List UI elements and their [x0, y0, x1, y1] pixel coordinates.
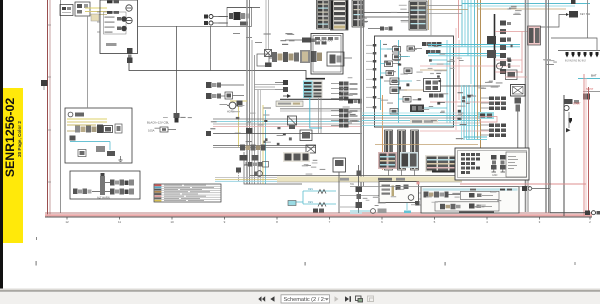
arrow symbol	[283, 94, 291, 98]
schematic frame left border	[48, 0, 51, 217]
battery column BC2	[398, 130, 406, 170]
harness box H1	[70, 171, 140, 199]
svg-text:12: 12	[65, 220, 69, 224]
svg-text:20 Page, Color 2: 20 Page, Color 2	[17, 121, 22, 157]
svg-text:Schematic (2 / 2:: Schematic (2 / 2:	[284, 297, 326, 303]
relay sockets right RS2	[331, 109, 358, 128]
double border box M1	[311, 34, 343, 75]
sub-box text	[508, 156, 518, 169]
toolbar prev button	[270, 296, 274, 302]
CB4 risers	[429, 0, 432, 36]
wire yellow feed	[85, 8, 107, 15]
UB1 ground chains	[491, 155, 506, 177]
connector chain C2	[368, 27, 393, 31]
pink outline box PK2	[480, 117, 497, 123]
wire relay to bus	[219, 17, 228, 24]
conn pins right top	[422, 42, 442, 54]
logic gate B	[393, 54, 409, 60]
wire main feed	[129, 63, 306, 79]
svg-text:START: START	[573, 103, 581, 106]
tan links ECM	[404, 70, 447, 90]
wire bundle mid horizontal	[213, 119, 362, 127]
cyan verticals in ECM	[381, 40, 451, 123]
alternator box A1	[65, 108, 132, 163]
logic gate C	[385, 61, 401, 67]
dense cluster DT2	[400, 152, 418, 168]
connector P1 vertical chain	[127, 48, 133, 63]
valve pair V1	[313, 209, 324, 213]
valve chain C4	[248, 162, 269, 168]
ring terminal pair T2	[204, 21, 228, 25]
wire CB3 to CB4	[364, 13, 409, 18]
gray ECM block	[313, 81, 323, 99]
bottom toolbar	[0, 289, 600, 304]
key switch S2	[566, 11, 591, 18]
gate D	[404, 68, 412, 74]
wire vertical drop to alternator	[176, 26, 178, 113]
stub labels upper mid	[233, 33, 262, 43]
relay module K2	[300, 130, 312, 141]
horn H2	[227, 102, 236, 113]
svg-text:KEY SW: KEY SW	[580, 12, 591, 16]
sender module SM1	[288, 201, 296, 206]
connector block CB4	[409, 1, 427, 30]
UB1 pin stacks	[461, 153, 480, 174]
starter drop wire	[563, 95, 565, 216]
wire bus38	[551, 38, 597, 50]
svg-text:RES: RES	[308, 188, 313, 191]
wire end comp	[206, 131, 211, 136]
filter chain FC2	[515, 98, 522, 149]
inline fuse box F2	[257, 54, 269, 66]
wire gauge to relay	[138, 25, 228, 27]
battery column tails	[389, 170, 415, 176]
cyan stub wires bottom	[350, 211, 370, 213]
toolbar next button disabled	[335, 296, 339, 302]
upper right box UB1	[455, 148, 529, 180]
wire lower pair	[213, 146, 316, 148]
power bus vertical PB1	[494, 14, 496, 80]
lamp module LM1	[288, 116, 297, 129]
logic gate A	[387, 47, 401, 53]
connector block CB3	[352, 0, 364, 27]
svg-text:BLACK+12V CBL: BLACK+12V CBL	[147, 121, 169, 125]
riser pair to chain	[266, 0, 269, 49]
sensor stack SS1	[350, 165, 362, 213]
gray line right top	[587, 0, 589, 38]
switch box SB1	[333, 158, 346, 213]
upper sub-box divider	[506, 152, 527, 177]
receptacle box J2	[327, 52, 352, 66]
cyan band mid right	[462, 85, 473, 140]
svg-text:GND: GND	[492, 174, 498, 177]
dense cluster DT3	[425, 155, 475, 172]
wire panel top	[350, 186, 530, 188]
gate F	[407, 46, 422, 51]
trim panel chain upper	[424, 192, 461, 198]
dense cluster DT4	[479, 152, 505, 172]
pink frame inner	[460, 74, 586, 216]
conn pins right mid	[429, 94, 444, 98]
transformer X1	[265, 50, 272, 68]
yellow label band	[3, 88, 23, 243]
cyan riser group	[462, 0, 481, 150]
relay box K1	[227, 7, 252, 26]
dense cluster DT1	[378, 152, 397, 169]
connector chain C1	[269, 50, 322, 63]
svg-text:INJ INJ INJ INJ INJ: INJ INJ INJ INJ INJ	[565, 60, 586, 63]
cyan drop wire	[310, 98, 322, 128]
cyan trunk horizontals	[428, 45, 520, 56]
diode module D1	[225, 92, 244, 99]
junction block JB1	[246, 128, 253, 134]
extra panel wires	[340, 193, 436, 210]
cyan ECM block	[303, 78, 325, 98]
breaker box B1	[60, 5, 73, 16]
label box L1	[276, 101, 303, 107]
wire right feeder	[440, 85, 500, 87]
alternator feed line	[87, 16, 89, 108]
relay K4	[390, 87, 407, 94]
frame ticks	[48, 25, 52, 182]
connector pins CP3	[275, 80, 288, 92]
pink riser	[458, 0, 460, 38]
svg-text:11: 11	[118, 220, 121, 224]
CB4 tails right	[427, 6, 468, 14]
gate H	[390, 109, 398, 115]
motor box M3	[511, 85, 526, 97]
connector row chain C3	[240, 145, 266, 151]
top edge comp	[571, 0, 576, 4]
pink service wires	[420, 28, 520, 131]
svg-text:10: 10	[170, 220, 174, 224]
svg-text:105A: 105A	[148, 129, 155, 133]
pink jumpers	[495, 32, 540, 74]
bottom frame	[45, 213, 592, 217]
trim inner box A	[461, 191, 500, 199]
cyan relay block CR1	[478, 112, 494, 119]
cyan links ECM	[381, 49, 451, 108]
connector stub CS1	[522, 148, 550, 191]
battery column BC1	[385, 130, 393, 170]
wire dark mid	[213, 133, 362, 135]
resistor R3	[303, 201, 336, 207]
connector D2	[237, 101, 243, 148]
pin rows PR2	[481, 124, 506, 138]
cyan harness bundle	[362, 113, 480, 126]
gray bus vertical x362	[361, 0, 364, 186]
gauge cluster right	[497, 63, 518, 80]
ECM edge pins	[366, 44, 376, 109]
cyan feeder top right	[462, 4, 590, 10]
ECM enclosure U2	[375, 36, 454, 127]
pump motor M2	[254, 171, 262, 177]
connector row C5	[348, 100, 362, 104]
schematic inner border line	[60, 0, 62, 213]
diode row DR1	[558, 51, 600, 63]
svg-text:ALT HARN: ALT HARN	[97, 196, 110, 200]
dense block top DT5	[283, 152, 310, 162]
relay K3	[384, 78, 399, 85]
io block IO1	[424, 79, 441, 92]
legend table	[154, 184, 221, 202]
wire relay drop	[210, 26, 212, 70]
bus stubs left cluster	[254, 85, 283, 90]
gate G	[399, 97, 412, 103]
bus bundle secondary	[258, 90, 266, 184]
frame terminal stub	[41, 80, 48, 90]
cyan elbow to rows	[464, 137, 487, 140]
red frame outer	[588, 87, 590, 213]
breaker box B2	[75, 2, 90, 16]
relay sockets right RS1	[331, 82, 358, 101]
svg-text:RES: RES	[308, 201, 313, 204]
gray bus x526	[526, 0, 529, 212]
orange vertical wire	[382, 95, 384, 170]
connector pair CP1	[206, 82, 244, 88]
toolbar page dropdown	[281, 295, 330, 303]
dense module DM1	[410, 105, 424, 113]
svg-text:BAT P: BAT P	[586, 87, 594, 91]
bundle wires into band	[215, 178, 277, 182]
wire key switch	[540, 15, 566, 28]
connector P2	[147, 113, 180, 125]
alternator internals	[67, 112, 123, 161]
connector block CB1	[317, 0, 330, 29]
connector block CB2	[331, 0, 349, 30]
resistor网 R2	[303, 188, 336, 194]
pink connector block PK1	[528, 26, 541, 45]
feeder tap block FT1	[487, 36, 496, 58]
BAT cyan wire	[578, 74, 600, 100]
trim inner box B	[435, 202, 499, 211]
wire bottom right	[550, 189, 600, 216]
pale harness band	[250, 176, 462, 182]
cab panel box CP4	[379, 182, 419, 203]
harness internals	[73, 173, 134, 200]
gray drops below block	[319, 98, 322, 133]
ground module G1	[306, 145, 316, 153]
grid tick row	[65, 217, 591, 224]
extra pink stubs right	[496, 60, 527, 77]
connector pair CP2	[206, 93, 225, 99]
fuse F1 105A	[148, 127, 176, 133]
toolbar clipboard icon disabled	[368, 296, 374, 302]
toolbar snapshot icon	[356, 296, 363, 302]
fuse column FC1	[500, 21, 511, 75]
pin rows PR1	[481, 97, 506, 111]
left stub comps	[415, 201, 420, 206]
trim panel box TP1	[421, 187, 519, 214]
sensor S1	[285, 38, 333, 43]
pink tap	[417, 182, 420, 185]
page specks	[36, 237, 576, 266]
solenoid pair SL1	[240, 155, 259, 165]
gate E	[381, 71, 394, 76]
wire label texture	[155, 5, 557, 208]
tan harness lower	[375, 144, 478, 146]
wire trunk pair	[280, 99, 362, 111]
starter group ST1	[564, 95, 582, 212]
battery column BC3	[411, 130, 419, 170]
gray bus vertical main	[247, 0, 255, 184]
enclosure line E1	[244, 152, 302, 184]
cyan drop to resistors	[290, 191, 303, 204]
lamp L2	[371, 209, 387, 214]
svg-text:BAT: BAT	[591, 74, 597, 78]
toolbar last-page button	[345, 296, 351, 302]
wire yellow branch	[230, 100, 247, 102]
gray bus x547	[546, 0, 549, 213]
feed box tan	[91, 14, 99, 21]
gauge panel U1	[97, 0, 138, 54]
left black strip	[0, 0, 3, 291]
bus bar BB1	[432, 171, 466, 173]
cyan blob bottom	[404, 211, 411, 214]
svg-text:SENR1256-02: SENR1256-02	[3, 98, 17, 177]
wire top feed	[227, 6, 260, 8]
ring terminal pair T1	[204, 15, 228, 19]
toolbar first-page button	[258, 296, 265, 302]
sender R1	[236, 168, 241, 183]
